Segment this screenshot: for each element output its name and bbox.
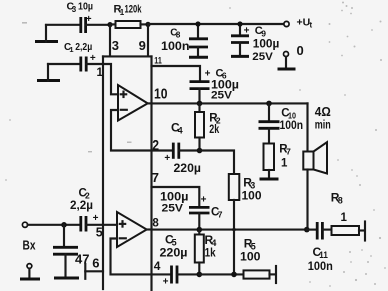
- op2 + marker: [120, 221, 125, 226]
- R8 label: [331, 191, 343, 206]
- svg-text:5: 5: [251, 242, 256, 252]
- op-amp U1a: [118, 85, 148, 121]
- svg-text:9: 9: [261, 28, 266, 38]
- pin 10 output wire: [152, 102, 308, 104]
- ground (C8): [189, 56, 208, 59]
- pin 9 lead: [147, 24, 149, 56]
- R5 label: [244, 237, 256, 252]
- node on rail: [237, 21, 242, 26]
- svg-text:10µ: 10µ: [78, 1, 93, 13]
- svg-text:6: 6: [92, 255, 99, 270]
- ground (C9): [231, 55, 249, 58]
- capacitor C7: [189, 207, 210, 229]
- svg-text:4: 4: [154, 259, 161, 273]
- capacitor C8: [189, 24, 208, 56]
- C3 label: [67, 1, 94, 14]
- node (C4/R2/R3 feedback node A): [197, 148, 203, 154]
- node (speaker/C11): [304, 227, 310, 233]
- ground bar (R8): [364, 222, 366, 241]
- op-amp U1b: [117, 212, 147, 247]
- pin 7 wire: [152, 187, 200, 206]
- C10 label: [281, 107, 296, 120]
- svg-text:8: 8: [152, 218, 159, 230]
- wire (pin5 to op2 +input): [103, 224, 117, 226]
- svg-text:9: 9: [139, 38, 146, 53]
- svg-text:Bx: Bx: [23, 239, 36, 253]
- capacitor C5: [152, 266, 200, 284]
- terminal Bx ground: [27, 264, 32, 278]
- svg-text:47: 47: [75, 252, 90, 267]
- svg-text:100n: 100n: [308, 261, 333, 273]
- C8 label: [170, 28, 181, 40]
- svg-text:5: 5: [96, 226, 103, 240]
- pin 11 wire: [152, 66, 201, 81]
- C11 label: [313, 245, 328, 260]
- svg-text:2,2µ: 2,2µ: [70, 200, 93, 212]
- svg-text:10: 10: [154, 86, 168, 103]
- capacitor C11: [307, 222, 332, 240]
- node (C10 branch): [266, 101, 272, 107]
- wire (pin1 to op1 +input): [103, 64, 118, 94]
- svg-text:+: +: [163, 276, 169, 287]
- wire (op1 -input to pin2 line): [111, 110, 173, 151]
- wire +Ut rail: [148, 23, 284, 25]
- svg-text:100µ: 100µ: [253, 39, 279, 51]
- capacitor 47n: [53, 225, 78, 277]
- ground (R7): [260, 178, 279, 181]
- wire: [46, 24, 80, 26]
- capacitor C10: [259, 103, 280, 143]
- svg-text:8: 8: [338, 196, 343, 206]
- wire (op2 output to pin8): [147, 228, 152, 230]
- C7 label: [211, 207, 223, 220]
- C9 label: [255, 25, 266, 38]
- op2 - marker: [120, 237, 126, 239]
- pin 8 output wire: [152, 229, 308, 231]
- ground (C1 left): [37, 64, 60, 81]
- ground (0 terminal): [278, 68, 296, 71]
- svg-text:2: 2: [152, 138, 159, 154]
- op1 - marker: [121, 109, 127, 111]
- +Ut label: [297, 17, 313, 30]
- node (input/47n): [61, 222, 67, 228]
- svg-text:11: 11: [154, 56, 162, 67]
- svg-text:3: 3: [72, 5, 77, 14]
- capacitor C4: [173, 143, 199, 159]
- node (R1/pin9/rail): [145, 22, 150, 27]
- svg-text:7: 7: [218, 210, 223, 220]
- pin 6 wire: [85, 270, 103, 272]
- svg-text:1k: 1k: [205, 248, 217, 260]
- capacitor C9: [231, 24, 249, 55]
- wire: [199, 273, 243, 275]
- node (C6/R2 on output): [197, 101, 203, 107]
- svg-text:+: +: [93, 213, 99, 224]
- wire (output to speaker top): [306, 103, 308, 151]
- svg-text:120k: 120k: [125, 4, 143, 16]
- node (R3 lead crossing pin8 line): [232, 228, 235, 231]
- speaker LS1: [303, 142, 327, 173]
- svg-text:min: min: [315, 120, 331, 132]
- wire pin 1: [86, 63, 103, 65]
- node on rail: [195, 21, 200, 26]
- svg-text:+: +: [86, 14, 92, 25]
- svg-text:1: 1: [341, 212, 348, 224]
- node (C5/R4 node B): [197, 272, 203, 278]
- ground (47n): [54, 277, 79, 280]
- svg-text:7: 7: [152, 170, 159, 185]
- svg-text:1: 1: [69, 45, 73, 54]
- resistor R5: [244, 270, 276, 278]
- terminal Bx input: [22, 222, 27, 227]
- capacitor C3: [81, 17, 86, 33]
- svg-text:2k: 2k: [209, 124, 219, 136]
- wire (op2 -input to pin4): [111, 239, 152, 275]
- R2 label: [209, 113, 221, 126]
- ground bar (pin 6): [84, 264, 86, 279]
- svg-text:7: 7: [286, 147, 291, 157]
- resistor R7: [264, 144, 275, 179]
- svg-text:+U: +U: [297, 17, 311, 29]
- ground bar (R5): [275, 266, 277, 283]
- resistor R8: [332, 226, 364, 235]
- R4 label: [205, 233, 217, 248]
- svg-text:5: 5: [172, 238, 177, 248]
- svg-text:0: 0: [297, 43, 304, 58]
- C4 label: [171, 121, 183, 136]
- svg-text:220µ: 220µ: [160, 248, 188, 260]
- resistor R3: [229, 174, 240, 274]
- svg-text:25V: 25V: [162, 203, 184, 215]
- svg-text:+: +: [164, 153, 170, 164]
- wire (op1 output to pin 10): [148, 102, 152, 104]
- node (C7/R4 on pin8 line): [197, 227, 203, 233]
- svg-text:100n: 100n: [280, 120, 304, 132]
- svg-text:220µ: 220µ: [174, 163, 202, 175]
- node (R3 to node B line): [231, 272, 237, 278]
- IC U1 outline: [103, 56, 152, 290]
- svg-text:25V: 25V: [252, 51, 273, 63]
- pin 3 lead: [109, 25, 111, 57]
- wire (node A to R3): [200, 151, 235, 175]
- terminal +Ut: [284, 21, 289, 26]
- svg-text:25V: 25V: [211, 90, 233, 102]
- svg-text:+: +: [205, 68, 211, 79]
- svg-text:3: 3: [112, 38, 119, 53]
- wire: [28, 224, 80, 226]
- resistor R2: [195, 103, 204, 150]
- svg-text:4Ω: 4Ω: [315, 104, 331, 119]
- ground (Bx): [20, 278, 40, 281]
- svg-text:t: t: [310, 21, 313, 30]
- svg-text:2,2µ: 2,2µ: [75, 42, 92, 53]
- svg-text:1: 1: [97, 67, 104, 79]
- ground (C3 left): [35, 25, 58, 42]
- svg-text:100: 100: [240, 251, 261, 263]
- node (C3/R1/pin3): [107, 22, 112, 27]
- op1 + marker: [121, 92, 126, 97]
- resistor R4: [195, 230, 204, 275]
- svg-text:1: 1: [281, 157, 288, 169]
- svg-text:100: 100: [242, 190, 262, 202]
- svg-text:+: +: [201, 194, 207, 205]
- capacitor C1: [81, 57, 86, 72]
- svg-text:3: 3: [250, 181, 255, 191]
- svg-text:+: +: [244, 25, 250, 36]
- svg-text:11: 11: [319, 250, 328, 260]
- svg-text:+: +: [90, 53, 96, 64]
- C6 label: [216, 68, 227, 81]
- C2 label: [79, 188, 91, 201]
- R1 label: [114, 4, 143, 17]
- capacitor C6: [190, 82, 210, 104]
- svg-text:100n: 100n: [161, 41, 190, 53]
- terminal 0: [284, 52, 289, 69]
- wire: [86, 24, 110, 26]
- svg-text:8: 8: [176, 31, 181, 40]
- resistor R1: [110, 21, 148, 28]
- svg-text:4: 4: [178, 126, 183, 136]
- C5 label: [165, 233, 177, 248]
- wire: [48, 63, 80, 65]
- wire (speaker bottom to pin8 line): [306, 170, 308, 230]
- R3 label: [243, 176, 255, 191]
- capacitor C2: [81, 216, 103, 232]
- R7 label: [279, 144, 291, 157]
- C1 label: [64, 42, 92, 54]
